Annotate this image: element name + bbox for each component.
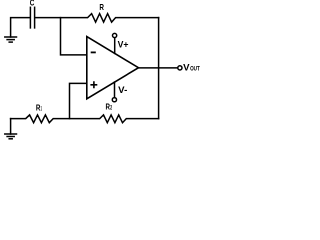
svg-text:OUT: OUT	[190, 66, 200, 73]
svg-text:1: 1	[41, 106, 43, 113]
svg-text:R: R	[99, 2, 104, 12]
svg-text:C: C	[30, 0, 35, 8]
svg-text:2: 2	[110, 104, 112, 111]
svg-text:V-: V-	[118, 85, 127, 96]
svg-text:V+: V+	[118, 40, 129, 51]
